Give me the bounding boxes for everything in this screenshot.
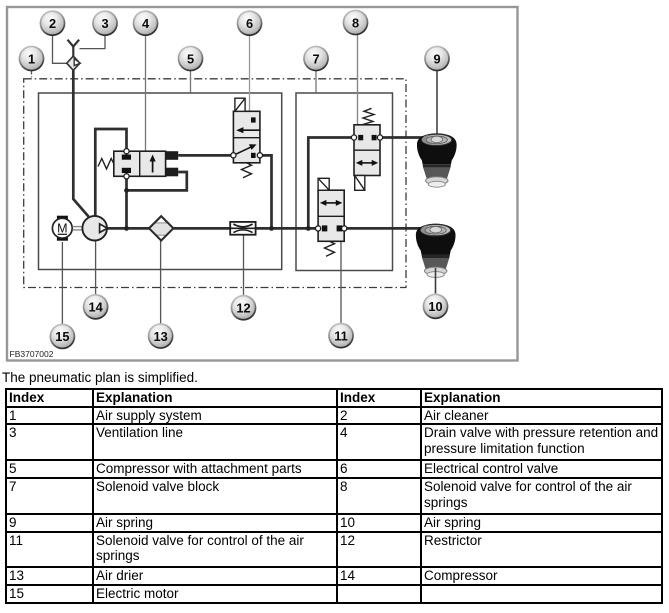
svg-text:6: 6 xyxy=(246,16,253,31)
electrical control valve (6) xyxy=(231,98,263,178)
callout circle 2 xyxy=(40,10,66,36)
restrictor (12) xyxy=(230,222,255,235)
pointer line to circle 9 xyxy=(436,71,438,135)
svg-text:5: 5 xyxy=(187,51,194,66)
wire: compressor to valve 4 top port xyxy=(95,129,126,217)
svg-text:13: 13 xyxy=(153,329,167,344)
pointer line to circle 10 xyxy=(435,268,437,294)
svg-text:7: 7 xyxy=(312,51,319,66)
pointer line to circle 3 xyxy=(80,36,106,49)
junction dot D (riser/main) xyxy=(306,226,311,231)
wire: valve 6 down to main line xyxy=(260,155,272,228)
pointer line to circle 15 xyxy=(61,242,63,324)
legend table xyxy=(5,388,663,604)
pointer line to circle 4 xyxy=(145,36,147,152)
callout circle 4 xyxy=(133,10,159,36)
junction dot C (valve 6 branch/main) xyxy=(269,226,274,231)
callout circle 3 xyxy=(92,10,118,36)
callout circle 7 xyxy=(303,46,329,72)
solenoid valve block box (7) xyxy=(296,93,393,271)
wire: valve 4 bottom port drain xyxy=(125,176,128,228)
pointer line to circle 7 xyxy=(315,71,317,93)
wire: riser to valve 8 feed xyxy=(308,138,354,229)
wire: valve 11 to air spring 10 xyxy=(344,227,424,230)
callout circle 8 xyxy=(343,10,369,36)
svg-text:8: 8 xyxy=(352,15,359,30)
pointer line to circle 2 xyxy=(53,36,67,64)
callout circle 10 xyxy=(423,293,449,319)
air cleaner (2) xyxy=(67,56,81,70)
motor-compressor shaft xyxy=(72,227,82,230)
callout circle 1 xyxy=(19,46,45,72)
junction dot B (drain/main) xyxy=(124,226,129,231)
svg-text:1: 1 xyxy=(28,51,35,66)
pointer line to circle 14 xyxy=(95,241,97,294)
svg-text:11: 11 xyxy=(334,328,348,343)
drain valve (4) xyxy=(98,149,178,179)
svg-text:3: 3 xyxy=(101,16,108,31)
callout circle 5 xyxy=(178,46,204,72)
vent symbol (3) xyxy=(68,40,80,57)
wire: ventilation line from air cleaner to compressor xyxy=(73,70,88,217)
svg-text:9: 9 xyxy=(433,51,440,66)
svg-text:2: 2 xyxy=(49,16,56,31)
pointer line to circle 11 xyxy=(340,242,342,324)
pointer line to circle 13 xyxy=(160,241,162,324)
solenoid valve 11 xyxy=(316,178,347,256)
wire: valve 4 pilot feedback loop xyxy=(127,172,187,190)
air spring (10) xyxy=(416,224,456,278)
pointer line to circle 1 xyxy=(31,71,33,80)
air spring (9) xyxy=(417,133,457,187)
svg-text:FB3707002: FB3707002 xyxy=(10,349,54,359)
compressor (14) xyxy=(82,216,107,241)
callout circle 13 xyxy=(148,323,174,349)
callout circle 6 xyxy=(237,10,263,36)
pointer line to circle 8 xyxy=(357,35,359,126)
wire: valve 8 to air spring 9 xyxy=(380,136,425,139)
svg-text:10: 10 xyxy=(428,299,442,314)
air drier (13) xyxy=(149,216,173,240)
callout circle 11 xyxy=(328,323,354,349)
callout circle 15 xyxy=(50,324,76,350)
pointer line to circle 6 xyxy=(249,36,251,113)
callout circle 14 xyxy=(83,294,109,320)
solenoid valve 8 xyxy=(351,108,382,190)
callout circle 9 xyxy=(424,46,450,72)
svg-text:4: 4 xyxy=(142,16,150,31)
compressor assembly box (5) xyxy=(39,93,282,270)
pointer line to circle 5 xyxy=(190,71,192,93)
air supply system boundary box (1), dash-dot xyxy=(24,79,406,288)
svg-text:12: 12 xyxy=(236,301,250,316)
diagram frame xyxy=(7,7,518,361)
pointer line to circle 12 xyxy=(243,235,245,296)
junction dot A (feedback/drain) xyxy=(124,188,129,193)
wire: main supply line (compressor to valve 11) xyxy=(104,227,318,230)
svg-text:14: 14 xyxy=(88,300,103,315)
caption xyxy=(2,370,198,385)
svg-text:15: 15 xyxy=(55,329,69,344)
svg-text:M: M xyxy=(57,222,67,236)
callout circle 12 xyxy=(231,295,257,321)
wire: valve 4 to valve 6 xyxy=(178,154,233,157)
electric motor (15) xyxy=(52,216,72,241)
